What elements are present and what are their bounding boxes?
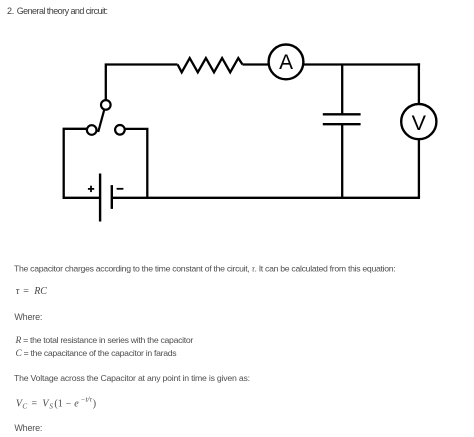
svg-text:RC: RC [33,286,47,297]
resistor R [178,58,243,72]
battery: positive long plate [99,174,101,222]
voltmeter V [401,104,436,139]
wire bottom rail [112,197,420,199]
wire right rail upper (corner down to voltmeter) [418,63,420,104]
wire capacitor branch upper [341,65,343,115]
svg-text:2.: 2. [7,6,14,16]
capacitor C [323,114,361,124]
battery: plus label [88,186,94,192]
equation Vc = Vs(1 - e^-t/tau) [16,396,96,411]
svg-text:e: e [74,399,79,410]
svg-text:C = the capacitance of the cap: C = the capacitance of the capacitor in … [16,348,178,359]
battery: negative short plate [111,185,113,209]
svg-text:Where:: Where: [14,423,42,433]
switch S1: pole terminal [101,100,111,110]
wire right throw across and down to bottom rail [125,129,148,198]
switch S1: blade [98,110,104,132]
wire right rail lower (voltmeter down to bottom rail corner) [418,139,420,199]
wire capacitor branch lower [341,124,343,198]
svg-text:): ) [93,399,96,410]
battery: minus label [117,188,124,190]
svg-text:C: C [22,403,27,411]
svg-text:τ: τ [16,286,20,297]
wire resistor to ammeter [243,63,270,65]
switch S1: left throw terminal [87,125,97,135]
switch S1: right throw terminal [115,125,125,135]
ammeter A [269,45,304,80]
svg-text:R = the total resistance in se: R = the total resistance in series with … [15,335,194,346]
svg-text:A: A [279,51,293,74]
svg-text:V: V [412,111,427,135]
wire ammeter to top-right corner [303,63,419,65]
equation tau = RC [16,286,48,297]
svg-text:The capacitor charges accordin: The capacitor charges according to the t… [14,264,395,274]
svg-text:−: − [66,399,72,410]
svg-text:−t/τ: −t/τ [81,396,93,404]
svg-text:General theory and circuit:: General theory and circuit: [17,6,108,16]
wire top-left: switch pole up and across to resistor [106,65,178,101]
svg-text:The Voltage across the Capacit: The Voltage across the Capacitor at any … [14,373,250,383]
svg-text:=: = [23,286,29,297]
svg-text:S: S [49,403,53,411]
svg-text:Where:: Where: [14,312,42,322]
svg-text:=: = [32,399,38,410]
wire left throw to left rail and down to battery + [64,129,99,198]
svg-text:(1: (1 [54,399,62,410]
